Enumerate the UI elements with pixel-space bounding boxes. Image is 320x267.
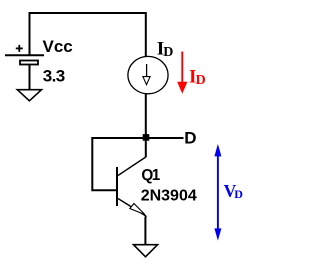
svg-text:Vcc: Vcc xyxy=(43,37,73,56)
svg-text:D: D xyxy=(163,45,173,60)
svg-text:D: D xyxy=(184,128,196,147)
svg-text:Q1: Q1 xyxy=(141,167,160,184)
svg-text:D: D xyxy=(234,187,243,201)
svg-text:D: D xyxy=(196,73,206,88)
svg-text:3.3: 3.3 xyxy=(43,66,65,85)
svg-text:2N3904: 2N3904 xyxy=(141,188,197,205)
